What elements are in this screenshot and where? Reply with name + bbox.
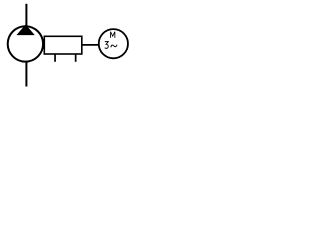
wire top port line	[25, 4, 27, 27]
wire shaft to motor	[82, 44, 99, 46]
label M	[111, 32, 115, 38]
wire bottom suction line	[25, 61, 27, 87]
label ~	[111, 45, 117, 48]
motor M1 circle	[99, 29, 128, 58]
pump flow triangle	[19, 26, 33, 34]
coupling box	[44, 36, 82, 54]
label 3	[105, 42, 109, 49]
pump P1 circle	[8, 26, 43, 61]
mount leg right	[75, 54, 77, 62]
mount leg left	[54, 54, 56, 62]
